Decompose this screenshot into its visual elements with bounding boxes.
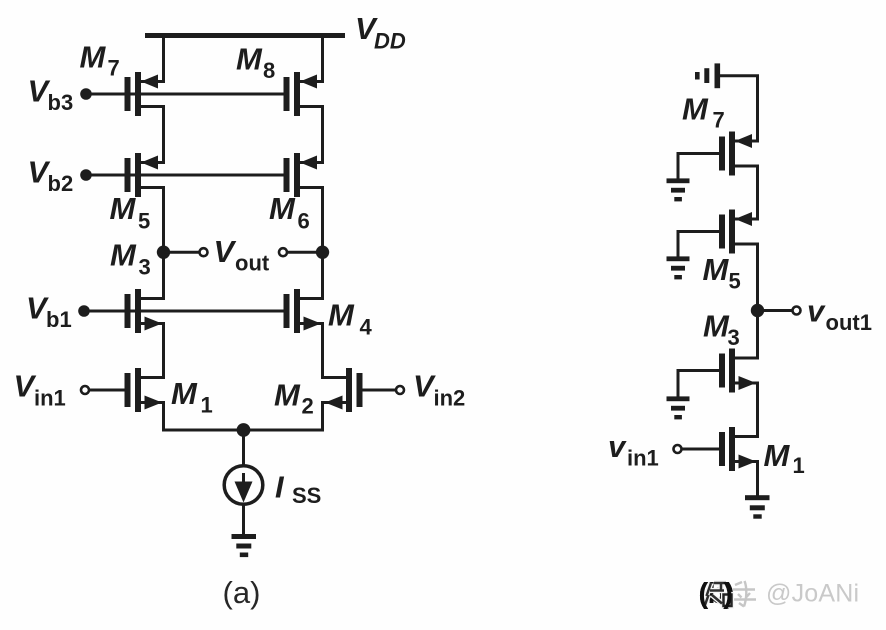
label ISS [275, 470, 321, 509]
label M2 [274, 378, 314, 419]
power rail VDD [145, 33, 345, 38]
transistor M6 (PMOS) [284, 153, 323, 197]
svg-text:(a): (a) [223, 575, 261, 610]
wire Vin1 to gate of M1 [90, 389, 125, 392]
transistor M2 (NMOS mirrored) [324, 368, 363, 412]
svg-text:v: v [807, 294, 826, 329]
caption (b) parentheses overdraw [699, 578, 733, 610]
node Vout right junction [316, 246, 329, 259]
wire M7 drain to M5 source [162, 105, 165, 164]
terminal vin1 (open circle) [674, 445, 682, 453]
terminal Vout right (open circle) [279, 248, 287, 256]
wire M7b drain to M5b source [756, 165, 759, 221]
caption (a) [223, 575, 261, 610]
label M5 [110, 191, 151, 234]
label M1 [171, 376, 213, 418]
transistor M4 (NMOS) [284, 289, 323, 333]
svg-text:M: M [171, 376, 198, 411]
terminal vout1 (open circle) [793, 307, 801, 315]
svg-text:6: 6 [298, 209, 310, 234]
ground (M1 source) [745, 495, 770, 519]
node Vb2 terminal dot [80, 169, 92, 181]
svg-text:DD: DD [374, 28, 406, 53]
watermark author handle [766, 580, 859, 608]
caption (b) [699, 578, 735, 610]
svg-text:7: 7 [108, 55, 120, 80]
svg-text:4: 4 [360, 315, 373, 340]
label M5 half-circuit [703, 252, 741, 294]
wire M3b gate to ground [678, 371, 719, 399]
label Vin2 [413, 368, 465, 410]
ground (M5 gate) [667, 256, 690, 279]
transistor M5 (PMOS) [125, 153, 164, 197]
wire VDD rail to M8 source [321, 36, 324, 84]
svg-text:7: 7 [713, 108, 725, 133]
label M6 [269, 191, 310, 234]
wire M1b source to ground [756, 460, 759, 497]
label M1 half-circuit [764, 438, 805, 478]
svg-text:in1: in1 [627, 446, 659, 471]
transistor M3 (half-circuit NMOS) [719, 349, 758, 393]
svg-text:5: 5 [138, 209, 150, 234]
label Vb2 [28, 155, 74, 197]
label Vb1 [26, 291, 72, 333]
svg-text:M: M [274, 378, 301, 413]
svg-text:M: M [80, 39, 107, 74]
svg-text:): ) [723, 578, 733, 610]
svg-text:SS: SS [292, 483, 321, 508]
ground (tail) [232, 534, 257, 557]
svg-text:in1: in1 [34, 386, 66, 411]
transistor M8 (PMOS) [284, 72, 323, 116]
wire Vb3 to gates of M7 M8 [86, 93, 284, 96]
label M8 [236, 42, 275, 84]
label M3 [110, 238, 151, 280]
transistor M7 (PMOS) [125, 72, 164, 116]
node Vout left junction [157, 246, 170, 259]
wire M4 source to M2 drain [321, 322, 324, 379]
transistor M7 (half-circuit PMOS) [719, 132, 758, 176]
terminal Vin2 (open circle) [396, 386, 404, 394]
terminal Vout left (open circle) [200, 248, 208, 256]
wire M3 source to M1 drain [162, 322, 165, 379]
label M3 half-circuit [703, 309, 740, 351]
svg-text:in2: in2 [434, 386, 466, 411]
label Vout [214, 234, 270, 276]
svg-text:M: M [236, 42, 263, 77]
svg-text:M: M [764, 438, 791, 473]
node tail junction [237, 423, 251, 437]
svg-text:I: I [275, 470, 285, 505]
wire Vout left junction to terminal [164, 251, 200, 254]
svg-text:M: M [703, 309, 730, 344]
wire M5 drain to M3 drain (left output branch) [162, 186, 165, 300]
svg-text:M: M [703, 252, 730, 287]
label VDD [355, 11, 406, 53]
label Vin1 [14, 368, 66, 410]
svg-text:M: M [269, 191, 296, 226]
wire Vb2 to gates of M5 M6 [86, 174, 284, 177]
wire ac ground to M7b source [720, 76, 758, 143]
wire Vb1 to gates of M3 M4 [84, 310, 284, 313]
current source ISS [224, 466, 263, 505]
svg-text:5: 5 [729, 269, 741, 294]
wire M3b source to M1b drain [756, 382, 759, 439]
watermark zhihu character zhi (overlapped dark) [705, 582, 732, 606]
label M4 [328, 298, 373, 340]
ground (M7 gate) [667, 178, 690, 201]
label M7 [80, 39, 120, 80]
svg-text:V: V [214, 234, 237, 269]
node vout1 junction [751, 304, 764, 317]
node Vb3 terminal dot [80, 88, 92, 100]
label M7 half-circuit [682, 92, 725, 133]
transistor M1 (NMOS) [125, 368, 164, 412]
svg-text:b1: b1 [46, 307, 72, 332]
svg-text:M: M [110, 238, 137, 273]
wire vin1 to gate of M1b [682, 448, 719, 451]
svg-text:out: out [235, 251, 270, 276]
svg-text:M: M [328, 298, 355, 333]
node Vb1 terminal dot [78, 305, 90, 317]
wire M8 drain to M6 source [321, 105, 324, 164]
wire M5b drain to M3b drain (output branch) [756, 243, 759, 360]
wire vout1 junction to terminal [758, 309, 793, 312]
terminal Vin1 (open circle) [81, 386, 89, 394]
svg-text:b3: b3 [48, 90, 74, 115]
svg-text:M: M [110, 191, 137, 226]
label Vb3 [28, 74, 74, 116]
transistor M1 (half-circuit NMOS) [719, 427, 758, 471]
svg-text:@JoANi: @JoANi [766, 580, 859, 608]
wire tail node M1-M2 sources [164, 429, 323, 432]
wire Vout terminal to right junction [288, 251, 323, 254]
svg-text:out1: out1 [826, 310, 872, 335]
wire M7b gate to ground [678, 154, 719, 181]
wire current source to ground [242, 505, 245, 536]
ground (M3 gate) [667, 396, 690, 419]
watermark zhihu character hu [732, 581, 756, 607]
wire M6 drain to M4 drain (right output branch) [321, 186, 324, 300]
wire M1 source to tail node [162, 401, 165, 432]
wire M5b gate to ground [678, 232, 719, 259]
svg-text:2: 2 [302, 394, 314, 419]
svg-text:v: v [608, 429, 627, 464]
svg-text:1: 1 [201, 393, 213, 418]
ac ground (VDD) sideways [695, 63, 720, 88]
svg-text:(: ( [699, 578, 709, 610]
wire M2 source to tail node [321, 401, 324, 432]
svg-text:3: 3 [728, 325, 740, 350]
transistor M5 (half-circuit PMOS) [719, 210, 758, 254]
wire tail to current source [242, 430, 245, 466]
wire Vin2 to gate of M2 [363, 389, 396, 392]
svg-text:1: 1 [793, 453, 805, 478]
svg-text:b2: b2 [48, 171, 74, 196]
svg-text:8: 8 [263, 58, 275, 83]
wire VDD rail to M7 source [162, 36, 165, 84]
label vout1 [807, 294, 872, 336]
svg-text:3: 3 [139, 255, 151, 280]
transistor M3 (NMOS) [125, 289, 164, 333]
svg-text:M: M [682, 92, 709, 127]
label vin1 [608, 429, 659, 471]
